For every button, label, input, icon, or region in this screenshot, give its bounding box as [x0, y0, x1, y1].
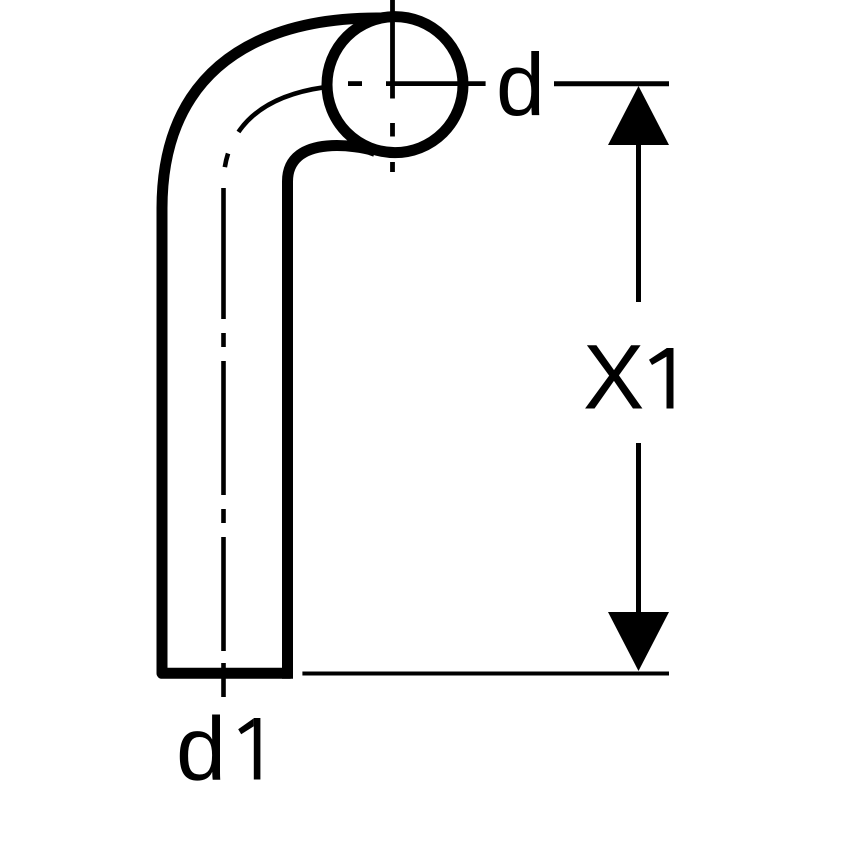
svg-text:X: X	[583, 327, 644, 429]
X1 dimension shaft lower	[636, 443, 641, 612]
label X1: digit 1 (custom glyph, no foot serif)	[667, 348, 674, 409]
pipe axis centerline: long dash	[221, 537, 226, 651]
X1 dimension shaft upper	[636, 145, 641, 302]
bottom extension line	[302, 672, 669, 676]
svg-text:d: d	[176, 700, 226, 800]
pipe outer edge: bottom cap, left wall, large bend, tangent into socket circle	[162, 18, 384, 673]
pipe axis centerline: dash through bottom cap	[221, 663, 226, 697]
pipe axis centerline: short dash	[221, 509, 226, 523]
pipe axis centerline: long dash	[221, 361, 226, 495]
circle vertical centerline: solid upper segment	[390, 0, 395, 99]
X1 dimension arrow down	[608, 612, 669, 671]
pipe end circle (socket opening, head-on)	[327, 17, 463, 153]
d extension line	[554, 81, 669, 86]
circle vertical centerline: dash 1	[390, 123, 395, 137]
circle vertical centerline: dash 2	[390, 162, 395, 172]
label d1: digit 1 (custom glyph, no foot serif)	[254, 718, 261, 780]
svg-text:d: d	[496, 35, 545, 134]
circle horizontal centerline: main segment	[386, 81, 486, 86]
pipe axis centerline: short dash	[221, 333, 226, 347]
pipe axis centerline: curved bend portion (short dash + long dash via dasharray)	[223, 87, 324, 187]
circle horizontal centerline: left dash	[348, 81, 362, 86]
pipe inner edge: right wall and inner bend merging into circle bottom	[288, 146, 371, 674]
pipe axis centerline: long dash	[221, 188, 226, 319]
X1 dimension arrow up	[608, 86, 669, 145]
